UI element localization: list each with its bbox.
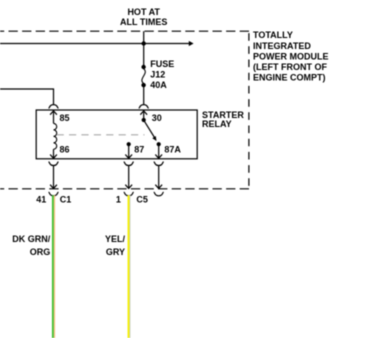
svg-text:ALL TIMES: ALL TIMES (120, 17, 167, 27)
svg-text:86: 86 (60, 144, 70, 154)
wire pin 87 to border (128, 166, 130, 189)
pin 87A lead (158, 144, 160, 158)
svg-text:YEL/: YEL/ (105, 234, 126, 244)
wire W1 dk grn/org (52, 195, 54, 338)
svg-text:DK GRN/: DK GRN/ (12, 234, 50, 244)
node switch common (142, 118, 146, 122)
svg-text:TOTALLY: TOTALLY (253, 30, 293, 40)
svg-text:RELAY: RELAY (202, 119, 232, 129)
svg-text:40A: 40A (150, 80, 167, 90)
connector cap pin 85 (49, 105, 59, 109)
svg-text:41: 41 (36, 194, 46, 204)
TIPM dashed border bottom (0, 188, 249, 190)
relay actuator dashed link (57, 134, 145, 136)
svg-text:HOT AT: HOT AT (127, 7, 160, 17)
node 87 (127, 142, 131, 146)
connector cup C5 below border (124, 192, 134, 196)
pin 87 lead (128, 144, 130, 158)
svg-text:INTEGRATED: INTEGRATED (253, 41, 311, 51)
wire W2 yel/gry (128, 195, 130, 338)
pin 30 arrow (143, 111, 145, 120)
wire from border to fuse (143, 31, 145, 67)
svg-text:1: 1 (116, 194, 121, 204)
svg-text:C5: C5 (136, 194, 148, 204)
svg-text:POWER MODULE: POWER MODULE (253, 51, 329, 61)
connector cup pin 87 below box (124, 162, 134, 166)
svg-text:30: 30 (152, 113, 162, 123)
svg-text:J12: J12 (150, 70, 165, 80)
svg-text:87A: 87A (164, 144, 181, 154)
wire hot feed horizontal (0, 43, 189, 45)
wire fuse to relay pin 30 (143, 85, 145, 104)
svg-text:C1: C1 (60, 194, 72, 204)
TIPM dashed border top (0, 30, 249, 32)
connector cup 87A below border (154, 192, 164, 196)
wire pin 87A to border (158, 166, 160, 189)
TIPM dashed border right (248, 31, 250, 189)
connector cup C1 below border (49, 192, 59, 196)
fuse J12 40A (141, 65, 145, 88)
relay box U: starter relay (36, 110, 197, 159)
svg-text:ORG: ORG (30, 247, 51, 257)
connector cup pin 86 below box (49, 162, 59, 166)
wire left feed to relay coil pin 85 (0, 89, 54, 104)
connector cup pin 87A below box (154, 162, 164, 166)
connector cap pin 30 (139, 105, 149, 109)
switch blade SW (145, 121, 155, 137)
svg-text:(LEFT FRONT OF: (LEFT FRONT OF (253, 62, 327, 72)
pin 85 arrow (53, 111, 55, 124)
svg-text:ENGINE COMPT): ENGINE COMPT) (253, 73, 326, 83)
svg-text:GRY: GRY (106, 247, 125, 257)
svg-text:FUSE: FUSE (150, 59, 174, 69)
wire pin 86 to border (53, 166, 55, 189)
svg-text:87: 87 (134, 144, 144, 154)
node 87A (157, 142, 161, 146)
svg-text:85: 85 (60, 113, 70, 123)
relay coil L1 (54, 123, 57, 149)
pin 86 arrow (53, 149, 55, 158)
arrow feed right (189, 41, 194, 46)
junction node (142, 41, 146, 45)
